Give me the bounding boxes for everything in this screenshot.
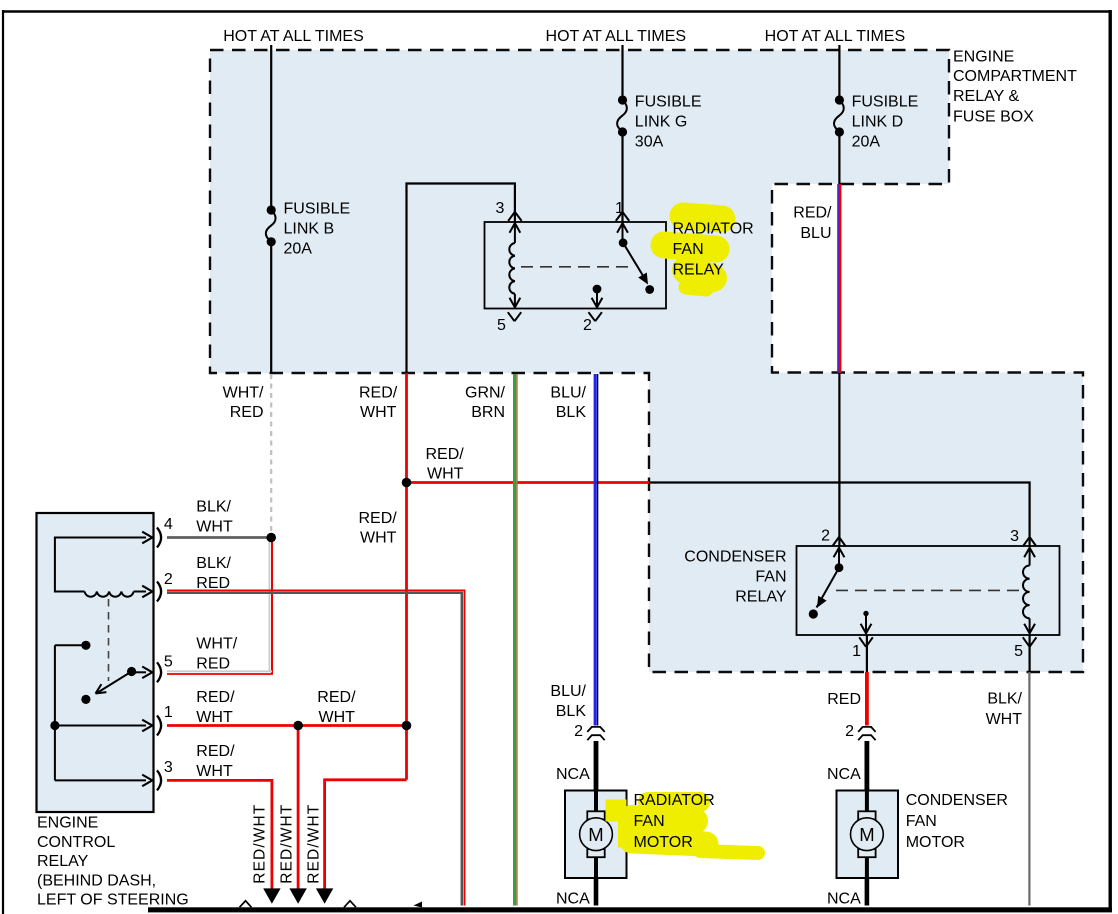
svg-text:FAN: FAN — [673, 241, 704, 258]
svg-text:RED: RED — [196, 656, 230, 673]
svg-text:WHT/: WHT/ — [196, 636, 237, 653]
svg-text:5: 5 — [1014, 643, 1023, 660]
svg-text:WHT: WHT — [360, 530, 397, 547]
svg-text:RED: RED — [196, 575, 230, 592]
svg-text:RED/: RED/ — [359, 385, 398, 402]
svg-text:COMPARTMENT: COMPARTMENT — [953, 68, 1077, 85]
svg-text:WHT: WHT — [427, 466, 464, 483]
svg-text:2: 2 — [821, 528, 830, 545]
svg-text:BLU/: BLU/ — [550, 385, 586, 402]
svg-text:FUSIBLE: FUSIBLE — [635, 93, 702, 110]
svg-text:2: 2 — [845, 723, 854, 740]
svg-text:CONDENSER: CONDENSER — [906, 792, 1008, 809]
svg-text:20A: 20A — [284, 241, 313, 258]
svg-text:FUSE BOX: FUSE BOX — [953, 109, 1034, 126]
svg-text:M: M — [859, 824, 874, 845]
svg-text:NCA: NCA — [556, 766, 590, 783]
svg-text:RED/: RED/ — [196, 689, 235, 706]
svg-text:MOTOR: MOTOR — [634, 834, 693, 851]
svg-text:HOT AT ALL TIMES: HOT AT ALL TIMES — [765, 28, 906, 45]
svg-text:5: 5 — [164, 654, 173, 671]
svg-text:BLK: BLK — [556, 404, 587, 421]
svg-text:RELAY: RELAY — [37, 853, 89, 870]
svg-text:CONDENSER: CONDENSER — [684, 549, 786, 566]
svg-text:WHT: WHT — [319, 709, 356, 726]
svg-text:30A: 30A — [635, 133, 664, 150]
svg-text:NCA: NCA — [827, 891, 861, 908]
svg-text:FUSIBLE: FUSIBLE — [852, 93, 919, 110]
svg-text:RED/WHT: RED/WHT — [279, 804, 296, 884]
svg-text:RED/: RED/ — [426, 446, 465, 463]
svg-text:ENGINE: ENGINE — [953, 49, 1014, 66]
svg-text:FAN: FAN — [906, 813, 937, 830]
svg-text:1: 1 — [852, 643, 861, 660]
svg-text:RED/: RED/ — [196, 743, 235, 760]
svg-text:RELAY &: RELAY & — [953, 88, 1019, 105]
svg-text:2: 2 — [164, 571, 173, 588]
svg-text:2: 2 — [583, 317, 592, 334]
svg-text:WHT: WHT — [986, 711, 1023, 728]
svg-text:RELAY: RELAY — [673, 261, 725, 278]
svg-text:WHT: WHT — [196, 709, 233, 726]
svg-text:LINK D: LINK D — [852, 113, 904, 130]
svg-text:RED/WHT: RED/WHT — [252, 804, 269, 884]
svg-text:RED/: RED/ — [317, 689, 356, 706]
svg-text:20A: 20A — [852, 133, 881, 150]
svg-text:RELAY: RELAY — [735, 589, 787, 606]
svg-text:HOT AT ALL TIMES: HOT AT ALL TIMES — [546, 28, 687, 45]
svg-text:BLK/: BLK/ — [196, 555, 231, 572]
svg-text:RED/: RED/ — [793, 205, 832, 222]
svg-text:FAN: FAN — [634, 813, 665, 830]
svg-text:WHT: WHT — [196, 519, 233, 536]
svg-text:WHT: WHT — [196, 763, 233, 780]
svg-text:3: 3 — [1010, 528, 1019, 545]
svg-text:ENGINE: ENGINE — [37, 815, 98, 832]
svg-text:BRN: BRN — [471, 404, 505, 421]
svg-text:WHT/: WHT/ — [223, 385, 264, 402]
svg-text:LEFT OF STEERING: LEFT OF STEERING — [37, 892, 189, 909]
svg-text:M: M — [588, 824, 603, 845]
svg-text:BLU: BLU — [800, 225, 831, 242]
svg-text:NCA: NCA — [556, 891, 590, 908]
svg-text:RADIATOR: RADIATOR — [673, 221, 754, 238]
svg-text:1: 1 — [164, 704, 173, 721]
svg-text:(BEHIND DASH,: (BEHIND DASH, — [37, 872, 156, 889]
svg-text:HOT AT ALL TIMES: HOT AT ALL TIMES — [223, 28, 364, 45]
svg-text:FAN: FAN — [755, 569, 786, 586]
svg-text:4: 4 — [164, 516, 173, 533]
svg-text:RED: RED — [230, 404, 264, 421]
svg-text:FUSIBLE: FUSIBLE — [284, 201, 351, 218]
svg-text:LINK G: LINK G — [635, 113, 687, 130]
svg-text:RADIATOR: RADIATOR — [634, 792, 715, 809]
svg-text:MOTOR: MOTOR — [906, 834, 965, 851]
svg-text:LINK B: LINK B — [284, 221, 335, 238]
svg-text:WHT: WHT — [360, 404, 397, 421]
svg-text:RED: RED — [827, 691, 861, 708]
svg-text:3: 3 — [164, 759, 173, 776]
svg-text:RED/: RED/ — [359, 510, 398, 527]
svg-text:NCA: NCA — [827, 766, 861, 783]
svg-text:BLK/: BLK/ — [987, 691, 1022, 708]
svg-text:BLU/: BLU/ — [550, 683, 586, 700]
svg-text:1: 1 — [615, 200, 624, 217]
svg-text:GRN/: GRN/ — [465, 385, 506, 402]
svg-text:BLK/: BLK/ — [196, 499, 231, 516]
svg-text:RED/WHT: RED/WHT — [306, 804, 323, 884]
svg-text:3: 3 — [496, 200, 505, 217]
svg-text:BLK: BLK — [556, 703, 587, 720]
svg-text:5: 5 — [497, 317, 506, 334]
svg-text:2: 2 — [574, 723, 583, 740]
svg-text:CONTROL: CONTROL — [37, 834, 115, 851]
